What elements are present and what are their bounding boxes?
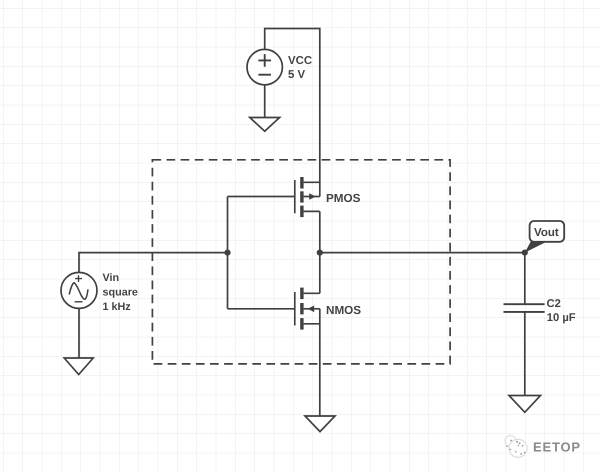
dashed box (inverter block): [152, 160, 450, 364]
transistor NMOS: [295, 288, 320, 330]
wire output rail: [320, 252, 525, 254]
label C2 10 uF: [547, 298, 576, 324]
svg-text:VCC: VCC: [288, 55, 312, 67]
voltage source VCC: [247, 49, 282, 84]
wire VCC- to ground: [264, 85, 266, 118]
node output junction (drain): [317, 250, 323, 256]
transistor PMOS: [295, 177, 320, 217]
ground (NMOS): [305, 416, 335, 432]
svg-text:C2: C2: [547, 298, 561, 310]
svg-text:PMOS: PMOS: [326, 192, 361, 205]
label VCC 5 V: [288, 55, 312, 81]
wire NMOS gate: [228, 308, 295, 310]
node input junction: [224, 250, 230, 256]
wire PMOS gate: [228, 196, 295, 198]
svg-text:1 kHz: 1 kHz: [103, 301, 132, 313]
svg-text:5 V: 5 V: [288, 69, 305, 81]
svg-text:Vout: Vout: [534, 227, 559, 239]
label Vin square 1 kHz: [103, 272, 138, 313]
svg-text:EETOP: EETOP: [533, 440, 581, 455]
wire NMOS source to ground: [319, 309, 321, 416]
node Vout junction: [522, 250, 528, 256]
svg-text:square: square: [103, 287, 138, 299]
wire Vin- to ground: [78, 308, 80, 358]
voltage source Vin (AC): [61, 272, 97, 308]
ground (C2): [509, 396, 541, 413]
ground (Vin): [64, 358, 93, 375]
watermark EETOP logo icon: [505, 436, 527, 458]
wire PMOS drain to output node: [319, 211, 321, 252]
svg-text:Vin: Vin: [103, 272, 120, 284]
ground (VCC): [250, 118, 280, 132]
svg-text:10 µF: 10 µF: [547, 312, 576, 324]
wire capacitor to ground: [524, 312, 526, 396]
wire Vin to input node: [79, 253, 228, 273]
node label Vout (callout): [525, 221, 564, 253]
wire VCC+ to PMOS source (top rail): [265, 29, 320, 197]
wire input vertical (gate bus): [227, 197, 229, 309]
capacitor C2: [504, 304, 545, 312]
wire Vout node to capacitor: [524, 253, 526, 305]
wire output node to NMOS drain: [319, 253, 321, 294]
svg-text:NMOS: NMOS: [326, 304, 361, 317]
